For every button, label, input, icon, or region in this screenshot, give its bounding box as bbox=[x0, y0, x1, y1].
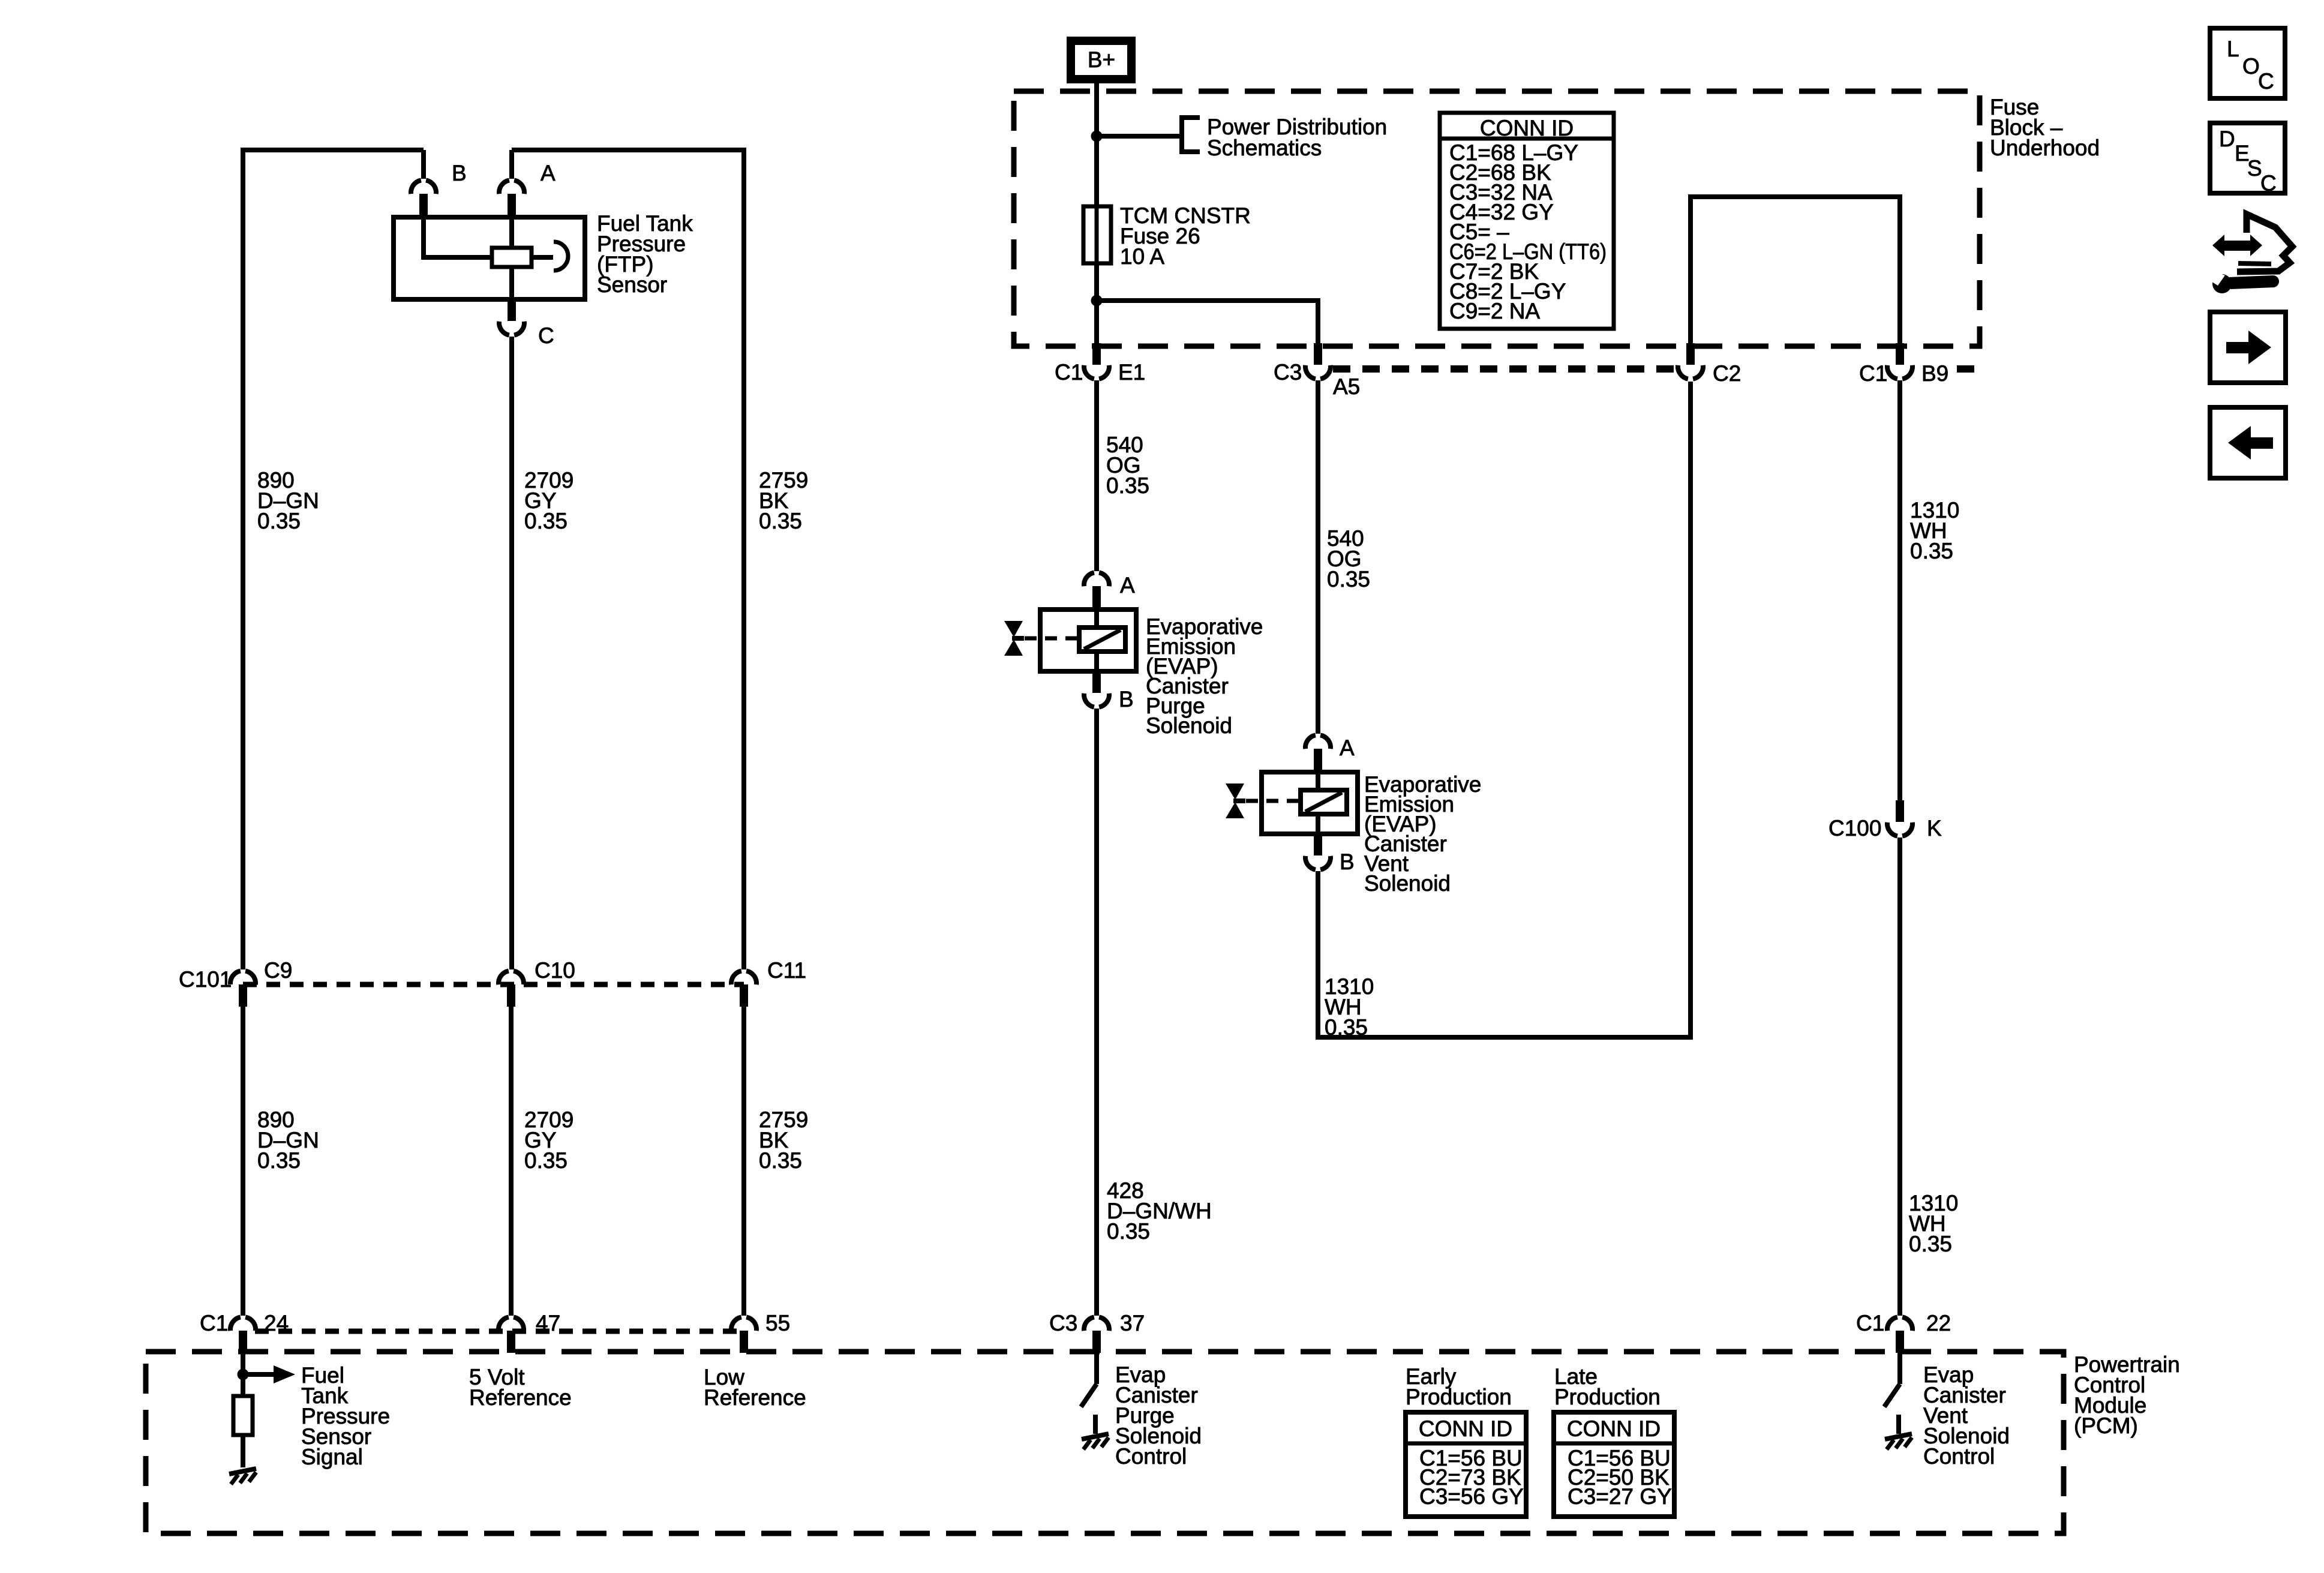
svg-text:Signal: Signal bbox=[301, 1445, 363, 1469]
wire resistor to ground bbox=[241, 1435, 245, 1467]
purge driver switch blade bbox=[1081, 1384, 1097, 1407]
diagnostic icon outline bbox=[2237, 214, 2292, 272]
svg-text:C11: C11 bbox=[767, 958, 806, 983]
wire fuse block jumper C2 to B9 bbox=[1691, 197, 1900, 343]
PCM pin 37 connector bbox=[1084, 1317, 1109, 1353]
late table rows bbox=[1568, 1446, 1672, 1509]
svg-text:CONN ID: CONN ID bbox=[1567, 1416, 1661, 1441]
PCM pin 24 connector bbox=[230, 1317, 256, 1353]
vent wire coil top bbox=[1316, 772, 1320, 790]
svg-text:C: C bbox=[2260, 171, 2277, 196]
label wire 2709 GY lower bbox=[524, 1107, 574, 1173]
wire through fuse bbox=[1095, 206, 1099, 263]
early table header underline bbox=[1406, 1442, 1526, 1446]
FTP internal wire from B bbox=[424, 217, 492, 257]
svg-text:CONN ID: CONN ID bbox=[1419, 1416, 1512, 1441]
previous page arrow bbox=[2228, 426, 2273, 460]
label wire 2709 GY upper bbox=[524, 468, 574, 533]
svg-text:0.35: 0.35 bbox=[1909, 1232, 1952, 1256]
connector pin A of FTP sensor bbox=[499, 180, 524, 216]
label PCM bbox=[2074, 1352, 2180, 1438]
vent driver switch blade bbox=[1884, 1384, 1900, 1407]
svg-text:Underhood: Underhood bbox=[1990, 136, 2100, 160]
svg-text:B9: B9 bbox=[1921, 361, 1948, 386]
connector pin B of FTP sensor bbox=[411, 180, 436, 216]
svg-text:C1: C1 bbox=[1055, 360, 1083, 385]
wire FTP A top horizontal and 2759 BK upper vertical bbox=[512, 150, 744, 969]
wire pin 22 into PCM bbox=[1897, 1353, 1902, 1384]
svg-text:10 A: 10 A bbox=[1120, 244, 1164, 269]
next page arrow box bbox=[2210, 312, 2286, 383]
svg-text:47: 47 bbox=[536, 1311, 560, 1335]
dashed inline connector line A5-C2 bbox=[1333, 365, 1677, 373]
svg-text:CONN ID: CONN ID bbox=[1480, 116, 1574, 140]
CONN ID rows bbox=[1449, 140, 1607, 323]
PCM internal resistor bbox=[233, 1396, 253, 1435]
vent valve dashed link bbox=[1246, 799, 1301, 803]
wire 1310 WH upper right bbox=[1897, 380, 1902, 800]
PCM pin 55 connector bbox=[731, 1317, 756, 1353]
fuse TCM CNSTR symbol bbox=[1083, 206, 1111, 263]
svg-text:C9=2 NA: C9=2 NA bbox=[1449, 299, 1540, 323]
vent driver ground stub bbox=[1896, 1415, 1901, 1434]
next page arrow bbox=[2226, 331, 2271, 364]
Fuse Block - Underhood dashed box bbox=[1014, 91, 1980, 346]
purge solenoid body bbox=[1040, 610, 1136, 671]
CONN ID header underline bbox=[1440, 137, 1614, 141]
svg-text:B+: B+ bbox=[1088, 47, 1115, 72]
svg-text:0.35: 0.35 bbox=[257, 1148, 301, 1173]
LOC icon letters bbox=[2227, 37, 2274, 94]
FTP internal wire from A bbox=[509, 217, 514, 248]
wire 540 OG purge bbox=[1094, 380, 1099, 571]
purge valve dashed link bbox=[1025, 637, 1079, 641]
FTP signal arrowhead bbox=[274, 1365, 295, 1383]
label wire 2759 BK lower bbox=[759, 1107, 808, 1173]
wire 428 D-GN/WH bbox=[1094, 709, 1099, 1316]
connector C101 dashed row bbox=[243, 982, 744, 987]
ground vent driver bbox=[1885, 1434, 1912, 1449]
svg-text:C3: C3 bbox=[1049, 1311, 1077, 1335]
svg-text:Schematics: Schematics bbox=[1207, 136, 1322, 160]
svg-text:K: K bbox=[1927, 816, 1942, 840]
svg-text:A: A bbox=[1340, 736, 1355, 760]
purge wire coil top bbox=[1094, 610, 1099, 628]
junction dot power distribution bbox=[1091, 131, 1103, 142]
label Low Reference bbox=[704, 1365, 806, 1410]
connector pin A purge solenoid bbox=[1084, 572, 1109, 608]
wire 2709 GY upper vertical bbox=[509, 337, 514, 969]
connector C2 bbox=[1678, 343, 1703, 379]
wire stub to connector B bbox=[421, 150, 426, 179]
early production CONN ID table bbox=[1406, 1412, 1526, 1517]
svg-text:Reference: Reference bbox=[704, 1385, 806, 1410]
svg-text:Control: Control bbox=[1923, 1444, 1995, 1469]
svg-text:O: O bbox=[2242, 54, 2260, 79]
svg-text:B: B bbox=[1119, 687, 1134, 712]
LOC icon box bbox=[2210, 28, 2285, 98]
FTP wiper wire bbox=[532, 255, 553, 260]
label Power Distribution Schematics bbox=[1207, 115, 1387, 160]
wire pin 37 into PCM bbox=[1094, 1353, 1099, 1384]
ground FTP signal bbox=[229, 1469, 256, 1484]
wire to power distribution bracket bbox=[1097, 134, 1182, 139]
vent wire coil bottom bbox=[1316, 814, 1320, 834]
label 1310 WH lower right bbox=[1909, 1191, 1958, 1256]
svg-text:Production: Production bbox=[1554, 1385, 1661, 1409]
svg-text:Solenoid: Solenoid bbox=[1146, 713, 1232, 738]
svg-text:22: 22 bbox=[1926, 1311, 1951, 1335]
purge wire coil bottom bbox=[1094, 652, 1099, 671]
connector C101 pin C9 bbox=[230, 971, 256, 1007]
connector C101 pin C11 bbox=[731, 971, 756, 1007]
label Evap Canister Purge Solenoid Control bbox=[1115, 1362, 1202, 1469]
svg-text:0.35: 0.35 bbox=[759, 1148, 802, 1173]
connector pin B vent solenoid bbox=[1305, 834, 1331, 870]
svg-text:B: B bbox=[452, 161, 467, 185]
label Fuse Block Underhood bbox=[1990, 95, 2100, 160]
label 428 D-GN/WH bbox=[1107, 1178, 1212, 1244]
wire 1310 WH lower right bbox=[1897, 837, 1902, 1316]
FTP sensor box bbox=[394, 217, 585, 299]
wire pin24 to resistor bbox=[241, 1353, 245, 1396]
connector C1 pin E1 bbox=[1084, 343, 1109, 379]
purge valve symbol bbox=[1004, 621, 1024, 656]
previous page arrow box bbox=[2210, 407, 2286, 478]
dashed inline connector line B9-edge bbox=[1957, 365, 1980, 373]
vent solenoid coil bbox=[1301, 790, 1347, 814]
label 540 OG vent bbox=[1327, 526, 1370, 592]
svg-text:C3=56 GY: C3=56 GY bbox=[1419, 1484, 1524, 1509]
vent valve symbol bbox=[1226, 784, 1245, 818]
wire branch to A5 bbox=[1097, 301, 1318, 343]
svg-text:0.35: 0.35 bbox=[1910, 539, 1953, 563]
svg-text:A: A bbox=[541, 161, 556, 185]
svg-text:0.35: 0.35 bbox=[257, 509, 301, 533]
svg-text:L: L bbox=[2227, 37, 2239, 61]
label wire 2759 BK upper bbox=[759, 468, 808, 533]
svg-text:0.35: 0.35 bbox=[524, 1148, 568, 1173]
svg-text:B: B bbox=[1340, 849, 1355, 874]
svg-text:0.35: 0.35 bbox=[1325, 1015, 1368, 1040]
label Evap Canister Vent Solenoid Control bbox=[1923, 1362, 2010, 1469]
vent solenoid body bbox=[1262, 772, 1358, 834]
wire B+ to fuse bbox=[1094, 83, 1099, 206]
svg-text:C10: C10 bbox=[535, 958, 575, 983]
diagnostic icon wrench bbox=[2208, 271, 2279, 293]
purge driver ground stub bbox=[1093, 1415, 1098, 1434]
diagnostic icon double arrow bbox=[2212, 235, 2262, 256]
svg-text:C3: C3 bbox=[1274, 360, 1302, 385]
PCM pin row dashed line bbox=[255, 1329, 744, 1334]
svg-text:(PCM): (PCM) bbox=[2074, 1413, 2138, 1438]
svg-text:55: 55 bbox=[765, 1311, 790, 1335]
late table header underline bbox=[1554, 1442, 1674, 1446]
svg-text:C101: C101 bbox=[179, 967, 232, 992]
purge solenoid coil bbox=[1079, 628, 1125, 652]
svg-text:C2: C2 bbox=[1713, 361, 1741, 386]
fuse block CONN ID table bbox=[1440, 113, 1614, 329]
connector C1 pin B9 bbox=[1887, 343, 1912, 379]
svg-text:Control: Control bbox=[1115, 1444, 1187, 1469]
connector C101 pin C10 bbox=[499, 971, 524, 1007]
svg-text:C9: C9 bbox=[264, 958, 292, 983]
early table rows bbox=[1419, 1446, 1524, 1509]
connector C3 pin A5 bbox=[1305, 343, 1331, 379]
wire 540 OG vent bbox=[1316, 380, 1320, 734]
label wire 890 D-GN lower bbox=[257, 1107, 319, 1173]
B+ power symbol box bbox=[1071, 41, 1131, 79]
DESC icon letters bbox=[2219, 127, 2277, 196]
svg-text:A5: A5 bbox=[1333, 374, 1360, 399]
FTP potentiometer resistor bbox=[492, 248, 532, 267]
svg-text:C3=27 GY: C3=27 GY bbox=[1568, 1484, 1672, 1509]
label Fuel Tank Pressure Sensor Signal bbox=[301, 1363, 390, 1469]
FTP signal arrow line bbox=[243, 1372, 275, 1377]
svg-text:24: 24 bbox=[264, 1311, 289, 1335]
svg-text:D: D bbox=[2219, 127, 2235, 151]
wire stub to connector A bbox=[509, 150, 514, 179]
svg-text:C1: C1 bbox=[200, 1311, 228, 1335]
svg-text:Production: Production bbox=[1406, 1385, 1512, 1409]
PCM pin 47 connector bbox=[499, 1317, 524, 1353]
wire fuse to connector E1 bbox=[1094, 263, 1099, 343]
wire 2709 GY lower vertical bbox=[509, 1007, 514, 1316]
label Early Production bbox=[1406, 1364, 1512, 1409]
junction dot fuse output bbox=[1091, 295, 1103, 307]
PCM dashed box bbox=[146, 1352, 2064, 1533]
label EVAP canister vent solenoid bbox=[1364, 772, 1481, 896]
late production CONN ID table bbox=[1554, 1412, 1674, 1517]
FTP pressure port arc bbox=[554, 242, 568, 271]
label 540 OG purge bbox=[1106, 433, 1149, 498]
svg-text:C1: C1 bbox=[1856, 1311, 1884, 1335]
label EVAP canister purge solenoid bbox=[1146, 614, 1263, 738]
DESC icon box bbox=[2210, 123, 2285, 193]
svg-text:C: C bbox=[2258, 69, 2274, 94]
label 5 Volt Reference bbox=[469, 1365, 572, 1410]
label FTP sensor name bbox=[597, 211, 693, 297]
wire 1310 WH vent to C2 bbox=[1318, 382, 1691, 1037]
wire FTP B top horizontal and 890 D-GN upper vertical bbox=[243, 150, 424, 969]
FTP internal wire to C bbox=[509, 267, 514, 299]
wire 890 D-GN lower vertical bbox=[241, 1007, 245, 1316]
svg-text:0.35: 0.35 bbox=[1327, 567, 1370, 592]
svg-text:0.35: 0.35 bbox=[524, 509, 568, 533]
label 1310 WH upper right bbox=[1910, 498, 1959, 563]
power distribution bracket symbol bbox=[1182, 118, 1200, 152]
connector pin A vent solenoid bbox=[1305, 735, 1331, 771]
wire 2759 BK lower vertical bbox=[741, 1007, 746, 1316]
purge coil diagonal bbox=[1084, 630, 1121, 649]
label wire 890 D-GN upper bbox=[257, 468, 319, 533]
ground purge driver bbox=[1082, 1434, 1109, 1449]
svg-text:E1: E1 bbox=[1118, 360, 1145, 385]
svg-text:C1: C1 bbox=[1859, 361, 1887, 386]
label 1310 WH vent bbox=[1325, 974, 1374, 1040]
svg-text:S: S bbox=[2247, 156, 2262, 181]
svg-text:C100: C100 bbox=[1828, 816, 1881, 840]
svg-text:0.35: 0.35 bbox=[1106, 473, 1149, 498]
svg-text:Reference: Reference bbox=[469, 1385, 572, 1410]
PCM pin 22 connector bbox=[1887, 1317, 1912, 1353]
connector pin B purge solenoid bbox=[1084, 671, 1109, 707]
label TCM CNSTR Fuse 26 10A bbox=[1120, 203, 1251, 269]
connector C100 pin K bbox=[1887, 800, 1912, 836]
junction dot FTP signal bbox=[238, 1369, 249, 1380]
label Late Production bbox=[1554, 1364, 1661, 1409]
svg-text:Solenoid: Solenoid bbox=[1364, 871, 1451, 896]
svg-text:A: A bbox=[1120, 573, 1135, 598]
vent coil diagonal bbox=[1305, 792, 1342, 812]
svg-text:Sensor: Sensor bbox=[597, 272, 667, 297]
connector pin C of FTP sensor bbox=[499, 299, 524, 335]
svg-text:37: 37 bbox=[1120, 1311, 1145, 1335]
svg-text:C: C bbox=[538, 323, 554, 348]
svg-text:0.35: 0.35 bbox=[1107, 1219, 1150, 1244]
svg-text:0.35: 0.35 bbox=[759, 509, 802, 533]
